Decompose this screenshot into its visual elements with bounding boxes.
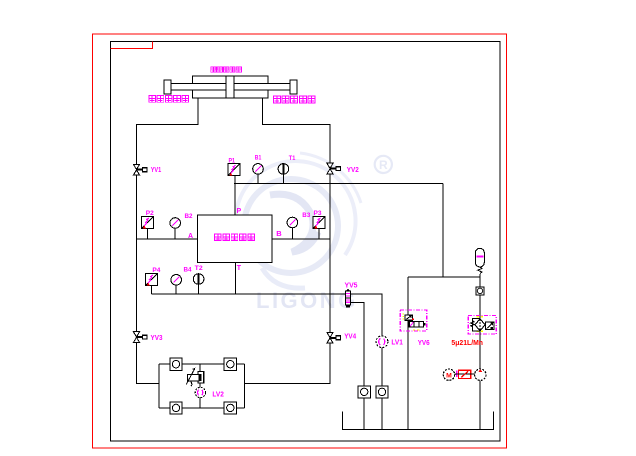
wire P3 stem xyxy=(318,228,320,239)
svg-text:B2: B2 xyxy=(185,213,193,220)
cartridge valve YV5 xyxy=(345,289,350,308)
svg-text:T2: T2 xyxy=(195,265,203,272)
wire P manifold xyxy=(234,182,443,184)
red outer border xyxy=(93,34,507,448)
svg-text:YV3: YV3 xyxy=(151,335,163,342)
svg-text:YV5: YV5 xyxy=(345,283,358,290)
svg-text:YV6: YV6 xyxy=(418,340,430,347)
svg-text:P: P xyxy=(237,208,242,215)
wire B2 stem xyxy=(174,228,176,239)
relief valve in bridge center xyxy=(186,369,204,387)
label: servo cylinder title xyxy=(211,67,242,72)
WATERMARK xyxy=(236,153,392,313)
solenoid valve YV3 xyxy=(133,332,147,343)
label: displacement sensor xyxy=(149,96,189,103)
solenoid valve YV2 xyxy=(327,163,341,174)
gauge B1 xyxy=(253,164,264,175)
wire accumulator column xyxy=(479,274,481,369)
thermometer T1 xyxy=(278,164,289,175)
wire YV5 lower out to tank xyxy=(351,302,365,429)
pressure transducer P2 xyxy=(142,216,154,228)
label: velocity sensor xyxy=(273,96,315,103)
svg-text:YV1: YV1 xyxy=(151,167,162,174)
black inner frame xyxy=(111,42,501,442)
servo cylinder barrel xyxy=(192,76,267,98)
solenoid valve YV1 xyxy=(133,164,147,175)
wire cylinder right port to right column xyxy=(245,98,331,384)
svg-text:B: B xyxy=(276,229,282,238)
svg-text:T1: T1 xyxy=(289,155,296,162)
wire B-line xyxy=(272,238,330,240)
wire P drop to servo valve xyxy=(234,176,236,215)
flow meter LV1 xyxy=(376,336,388,348)
check valve bridge bottom-right xyxy=(224,402,236,414)
red corner notch xyxy=(111,42,153,49)
wire T return line xyxy=(151,293,345,295)
wire pump suction to tank xyxy=(479,380,481,429)
solenoid valve YV4 xyxy=(327,332,341,343)
label: servo valve name xyxy=(215,234,255,241)
check valve bridge top-left xyxy=(170,358,182,370)
tank xyxy=(342,412,493,430)
wire T2 stem xyxy=(198,284,200,294)
wire P2 stem xyxy=(147,228,149,239)
svg-text:5μ21L/Mn: 5μ21L/Mn xyxy=(451,338,483,347)
svg-text:P3: P3 xyxy=(314,210,322,217)
svg-text:R: R xyxy=(379,158,388,172)
wire B3 stem xyxy=(291,228,293,239)
hydraulic pump xyxy=(475,369,486,380)
check valve bridge top-right xyxy=(224,358,236,370)
wire A-line xyxy=(137,238,198,240)
bridge rails xyxy=(159,364,244,408)
svg-text:YV2: YV2 xyxy=(347,167,359,174)
check valve bridge bottom-left xyxy=(170,402,182,414)
svg-text:LIGONG: LIGONG xyxy=(256,288,358,313)
flow meter LV2 xyxy=(195,387,205,397)
svg-text:A: A xyxy=(188,233,193,240)
gauge B2 xyxy=(170,218,181,229)
servo valve block U1 xyxy=(198,215,272,263)
wire B1 stem xyxy=(257,174,259,183)
wire motor-pump shaft xyxy=(455,373,475,375)
svg-text:LV2: LV2 xyxy=(212,392,224,399)
cylinder left rod cap xyxy=(164,80,171,94)
svg-text:T: T xyxy=(237,265,242,272)
cylinder right rod cap xyxy=(290,80,297,94)
svg-text:B3: B3 xyxy=(302,212,310,219)
wire pump branch header xyxy=(408,276,480,278)
svg-text:YV4: YV4 xyxy=(344,334,356,341)
svg-text:LV1: LV1 xyxy=(391,340,403,347)
wire T drop from servo valve xyxy=(235,263,237,294)
wire YV5 out to LV1 drop xyxy=(351,294,382,429)
spring squiggle under accumulator xyxy=(478,267,482,273)
pressure transducer P4 xyxy=(145,274,157,286)
gauge B3 xyxy=(287,217,298,228)
svg-text:B1: B1 xyxy=(255,154,262,161)
wire T1 stem xyxy=(282,174,284,183)
check valve (left tank drop) xyxy=(358,386,370,398)
unloading valve group YV6 xyxy=(400,310,427,331)
wire pressure riser xyxy=(442,183,444,277)
accumulator xyxy=(475,248,484,267)
thermometer T2 xyxy=(193,274,204,285)
pressure transducer P3 xyxy=(313,216,325,228)
coupling xyxy=(455,370,475,378)
svg-text:P4: P4 xyxy=(152,267,160,274)
svg-text:P1: P1 xyxy=(229,157,236,164)
wire cylinder left port to left column xyxy=(137,98,199,384)
gauge B4 xyxy=(171,275,182,286)
electric motor M xyxy=(443,369,454,380)
wire YV6 drop to tank xyxy=(407,277,409,430)
svg-text:P2: P2 xyxy=(146,210,154,217)
cylinder piston xyxy=(226,76,234,98)
wire P4 stem xyxy=(150,286,152,295)
filter group (5u 21L/min) xyxy=(468,315,496,334)
svg-text:B4: B4 xyxy=(184,267,192,274)
pressure transducer P1 xyxy=(228,164,240,176)
cylinder rod xyxy=(171,83,290,89)
shut-off valve under accumulator xyxy=(476,287,484,295)
svg-text:M: M xyxy=(446,372,452,379)
wire B4 stem xyxy=(175,285,177,294)
check valve (right tank drop) xyxy=(376,386,388,398)
